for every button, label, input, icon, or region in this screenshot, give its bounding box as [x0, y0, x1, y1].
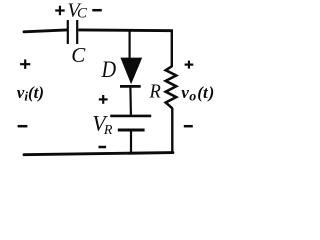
label + (battery top)	[99, 95, 108, 104]
svg-text:): )	[207, 83, 215, 102]
svg-text:R: R	[149, 81, 162, 103]
svg-text:v: v	[181, 83, 189, 102]
label minus (input bottom)	[18, 125, 28, 128]
capacitor C1 left plate	[67, 20, 69, 44]
label + (top, left of VC)	[55, 6, 64, 16]
svg-text:R: R	[103, 123, 113, 138]
battery VR short plate	[118, 129, 145, 132]
svg-text:(t): (t)	[28, 83, 44, 102]
battery VR long plate	[110, 115, 151, 118]
svg-text:C: C	[77, 6, 88, 22]
wire top-left (input top terminal to capacitor)	[24, 30, 67, 32]
diode D triangle	[120, 58, 142, 85]
wire right vertical (corner to resistor top)	[171, 30, 173, 67]
diode D cathode bar	[120, 85, 141, 88]
label minus (output bottom)	[184, 125, 193, 128]
wire battery to bottom wire	[130, 131, 132, 154]
wire diode cathode to battery	[129, 88, 132, 115]
label + (output top)	[185, 61, 194, 69]
svg-text:C: C	[71, 43, 86, 67]
wire top (capacitor to top-right corner)	[78, 28, 173, 32]
capacitor C1 right plate	[76, 20, 78, 44]
label minus (top, right of VC)	[92, 9, 102, 12]
resistor R zigzag	[166, 66, 177, 108]
wire diode anode (from top wire down)	[129, 31, 131, 58]
label + (input top)	[20, 59, 30, 69]
wire bottom	[24, 153, 173, 155]
wire below resistor to bottom-right corner	[171, 108, 173, 153]
svg-text:o: o	[189, 90, 196, 105]
svg-text:D: D	[101, 56, 117, 83]
label minus (battery bottom)	[99, 146, 107, 149]
